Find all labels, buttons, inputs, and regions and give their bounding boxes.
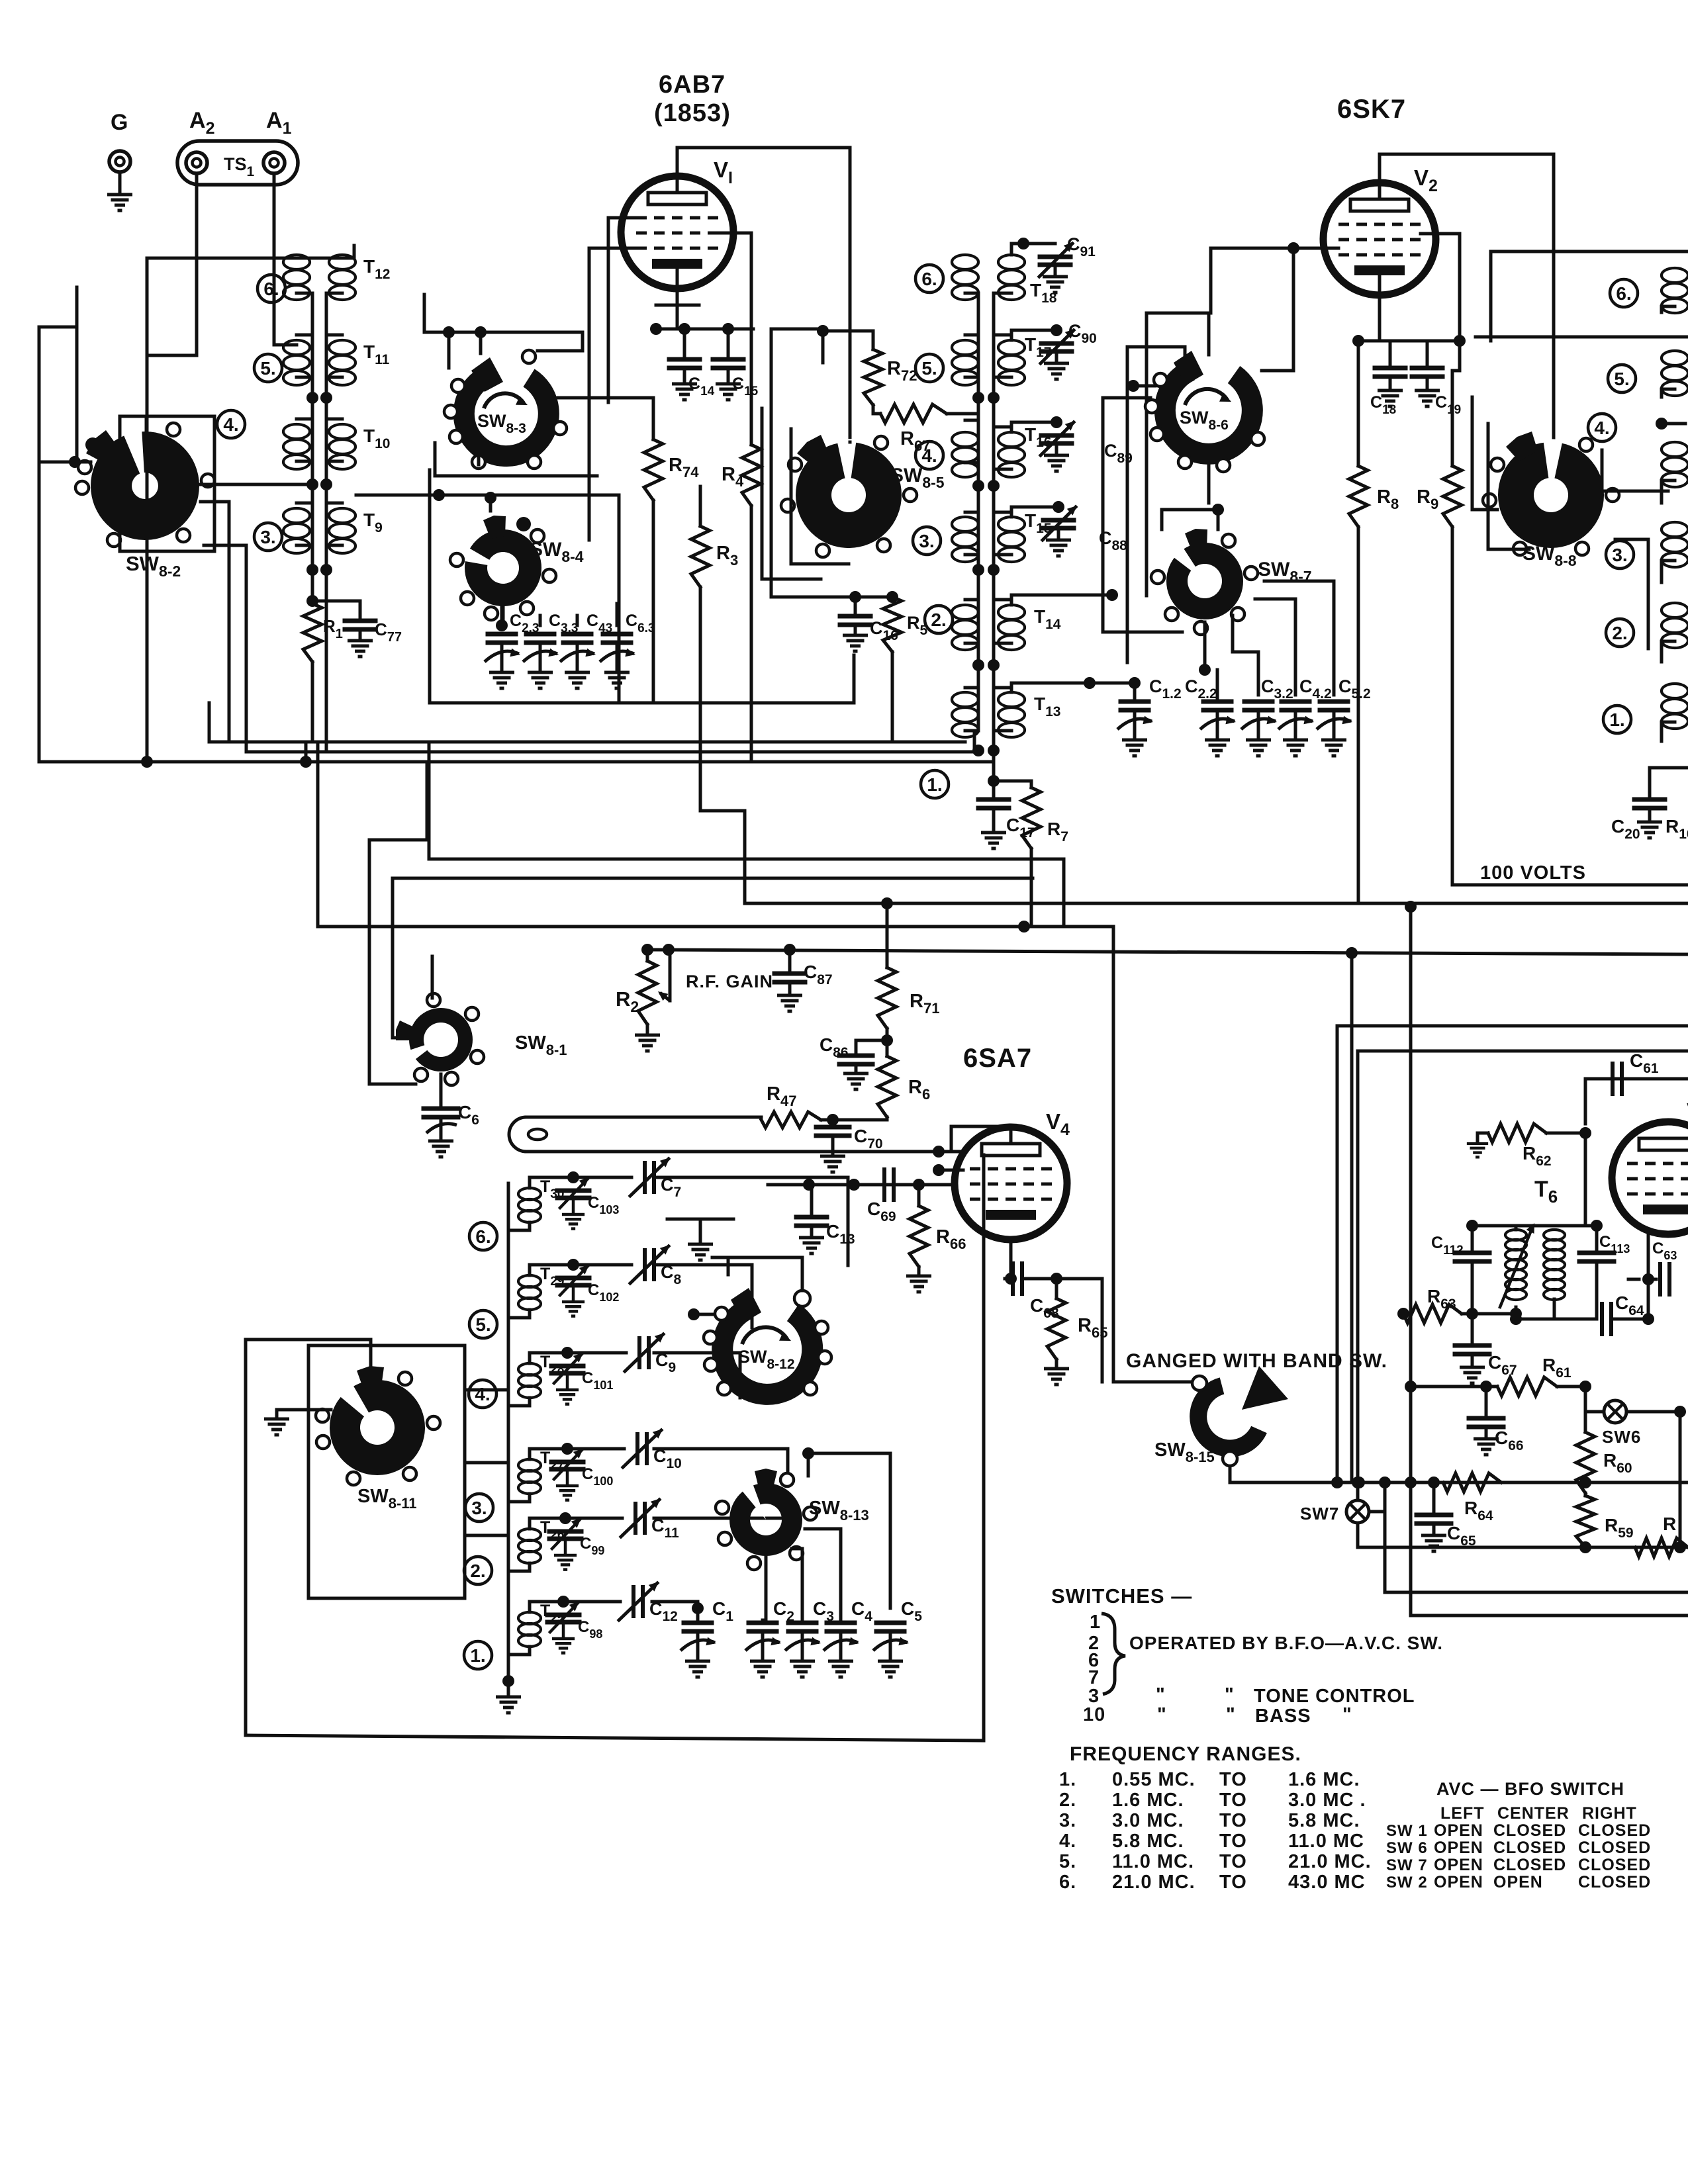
svg-text:5.8 MC.: 5.8 MC. (1288, 1810, 1360, 1831)
svg-text:4.: 4. (1594, 418, 1609, 438)
svg-text:G: G (111, 110, 128, 135)
resistor R63 (1403, 1304, 1462, 1323)
ground under C20 (1637, 822, 1662, 838)
svg-text:TONE CONTROL: TONE CONTROL (1254, 1686, 1415, 1707)
svg-text:6.: 6. (1616, 283, 1631, 304)
wire row 28 right (654, 1353, 740, 1398)
trimmer C101 (530, 1353, 567, 1363)
wire R74 down (652, 500, 655, 703)
wires SW8-6 (1133, 385, 1155, 388)
resistor R3 (691, 526, 710, 587)
svg-text:GANGED WITH BAND SW.: GANGED WITH BAND SW. (1126, 1350, 1387, 1372)
svg-text:0.55 MC.: 0.55 MC. (1112, 1769, 1196, 1790)
transformer T17 (998, 340, 1025, 355)
capacitor C14 (683, 329, 686, 357)
T6 primary winding (1505, 1230, 1526, 1240)
ground under C16 (843, 635, 868, 651)
oscillator box bottom (246, 1735, 984, 1741)
rotary switch SW8-3 (464, 375, 549, 456)
wire row 30 right (654, 1177, 848, 1265)
transformer T29 (518, 1275, 541, 1287)
resistor R71 (886, 903, 889, 968)
wire T6 top node (1472, 1224, 1597, 1228)
bottom right buses (1358, 1523, 1688, 1547)
ground under C15 (716, 384, 741, 400)
svg-text:CLOSED: CLOSED (1578, 1873, 1651, 1891)
wire V2 plate right (1421, 234, 1460, 341)
transformer T14 (998, 605, 1025, 619)
ground at R62 (1467, 1144, 1488, 1157)
trimmer C102 (530, 1265, 573, 1275)
transformer T16 (998, 432, 1025, 447)
wire SW8-3 bottom box (435, 443, 597, 476)
svg-text:RIGHT: RIGHT (1582, 1804, 1637, 1823)
wire T13 top to C1.2 (1011, 683, 1135, 692)
circled 6. (469, 1222, 497, 1250)
trimmer C88 (1011, 507, 1058, 517)
svg-text:SW 7: SW 7 (1386, 1856, 1428, 1874)
svg-text:1.: 1. (470, 1645, 485, 1666)
wire V1 topcap to SW8-5 (849, 441, 852, 444)
capacitor C6 (440, 1074, 443, 1107)
wire V4 top cap loop (951, 1126, 1011, 1152)
padder C2 (749, 1621, 776, 1625)
trimmer C6.3 (603, 632, 631, 637)
ground under R2 (646, 1024, 649, 1034)
wire bus 1365 (745, 902, 1688, 905)
capacitor C112 (1471, 1226, 1474, 1251)
wires SW8-13 to caps (808, 1453, 890, 1608)
wire T28 bottom (508, 1398, 530, 1406)
pointer SW8-12 (731, 1288, 761, 1323)
svg-text:SWITCHES —: SWITCHES — (1051, 1584, 1192, 1608)
oscillator common line (507, 1183, 510, 1681)
ground under C67 (1460, 1367, 1485, 1383)
svg-text:1.6 MC.: 1.6 MC. (1288, 1769, 1360, 1790)
circled 3. (465, 1494, 493, 1522)
wire bus 1588 (1358, 1050, 1688, 1053)
wire row 29 right (654, 1265, 752, 1328)
svg-text:OPEN: OPEN (1434, 1839, 1483, 1857)
T6 secondary winding (1544, 1230, 1565, 1240)
svg-text:CLOSED: CLOSED (1493, 1856, 1566, 1874)
wire SW8-1 feed (369, 762, 427, 996)
circled 2. (464, 1557, 492, 1584)
rotary switch SW8-5 (796, 442, 902, 548)
svg-text:CLOSED: CLOSED (1578, 1839, 1651, 1857)
wire V1 plate right (718, 233, 751, 445)
capacitor C68 (1005, 1277, 1011, 1281)
svg-text:BASS: BASS (1255, 1706, 1311, 1727)
rotary switch SW8-12 (722, 1310, 812, 1394)
ground under C86 (843, 1073, 868, 1089)
svg-text:(1853): (1853) (654, 99, 731, 127)
svg-text:11.0 MC: 11.0 MC (1288, 1831, 1364, 1852)
svg-text:1.: 1. (1609, 709, 1624, 730)
ground under C66 (1474, 1439, 1499, 1455)
wire mid coil columns (965, 293, 978, 731)
resistor R74 (644, 439, 663, 500)
svg-text:TO: TO (1219, 1872, 1247, 1893)
transformer T15 (998, 517, 1025, 531)
padder C1.2 (1121, 700, 1149, 704)
svg-text:4.: 4. (475, 1384, 490, 1404)
ground mid (699, 1219, 702, 1243)
svg-text:5.: 5. (260, 358, 275, 379)
resistor R9 (1452, 341, 1460, 466)
svg-text:4.: 4. (921, 445, 937, 466)
ground bottom of oscillator (502, 1675, 514, 1687)
svg-text:100 VOLTS: 100 VOLTS (1480, 862, 1586, 884)
svg-text:2.: 2. (470, 1561, 485, 1581)
svg-text:3.: 3. (471, 1498, 487, 1518)
svg-text:6.: 6. (921, 269, 937, 289)
svg-text:2.: 2. (931, 610, 946, 630)
padder C4 (827, 1621, 855, 1625)
wire R3 column (699, 486, 702, 526)
rotary switch SW8-13 (729, 1483, 802, 1556)
wire coil column joins (297, 293, 312, 570)
rotary switch SW8-2 (91, 432, 199, 540)
svg-text:TO: TO (1219, 1810, 1247, 1831)
svg-text:CLOSED: CLOSED (1493, 1821, 1566, 1840)
resistor R59 (1584, 1493, 1587, 1496)
wire row 27 right (654, 1449, 788, 1484)
svg-text:TO: TO (1219, 1769, 1247, 1790)
wire trimmer box bottom run (430, 655, 854, 703)
wires SW8-12 (694, 1313, 712, 1316)
wire row 26 right (654, 1518, 798, 1530)
svg-text:3.: 3. (1612, 545, 1627, 565)
resistor R60 (1576, 1432, 1595, 1493)
capacitor C87 (788, 950, 792, 972)
svg-text:3.0 MC .: 3.0 MC . (1288, 1790, 1366, 1811)
padder C1 (692, 1602, 704, 1614)
svg-text:TO: TO (1219, 1831, 1247, 1852)
svg-text:6SK7: 6SK7 (1337, 95, 1406, 124)
svg-text:1.6 MC.: 1.6 MC. (1112, 1790, 1184, 1811)
coil ant-3 (283, 508, 310, 523)
resistor R5 (883, 597, 902, 652)
wire box around SW8-5 (791, 429, 849, 564)
transformer T13 (998, 692, 1025, 707)
capacitor C67 (1471, 1314, 1474, 1343)
svg-text:": " (1156, 1684, 1166, 1706)
wire V1 grid left (608, 218, 636, 402)
capacitor C16 (855, 596, 892, 599)
wire into SW8-2 left (39, 461, 91, 464)
wire verticals right middle (1409, 907, 1413, 1482)
ground under C6 (428, 1141, 453, 1157)
svg-text:OPEN: OPEN (1493, 1873, 1543, 1891)
wires into SW8-3 (424, 331, 583, 334)
coil mid-5 (952, 340, 978, 355)
rotary switch SW8-4 (465, 529, 541, 606)
capacitor C113 (1595, 1226, 1599, 1251)
wire bus 1550 (1337, 1024, 1688, 1028)
wire R1 down (311, 662, 314, 739)
svg-text:3.0 MC.: 3.0 MC. (1112, 1810, 1184, 1831)
ground under G (107, 195, 132, 210)
svg-text:R: R (1663, 1514, 1676, 1534)
series capacitor C8 (573, 1263, 632, 1267)
tube V5 right edge (1612, 1122, 1688, 1234)
series capacitor C10 (567, 1447, 624, 1451)
svg-text:FREQUENCY RANGES.: FREQUENCY RANGES. (1070, 1743, 1301, 1765)
capacitor C19 (1426, 341, 1429, 366)
resistor R1 (303, 604, 322, 662)
svg-text:": " (1342, 1704, 1352, 1725)
capacitor C66 (1485, 1387, 1488, 1416)
capacitor C13 (810, 1185, 814, 1215)
ground under C77 (348, 641, 373, 657)
resistor R65 (1055, 1279, 1058, 1298)
wire T26 bottom (508, 1563, 530, 1571)
tube V4 6SA7 (955, 1127, 1067, 1240)
svg-text:6AB7: 6AB7 (659, 71, 726, 99)
svg-text:CENTER: CENTER (1497, 1804, 1570, 1823)
rotary switch SW8-6 (1165, 371, 1252, 454)
svg-text:2.: 2. (1059, 1790, 1076, 1811)
wire right coil jogs (1662, 306, 1675, 312)
padder C3.2 (1244, 700, 1272, 704)
capacitor C69 (882, 1169, 886, 1200)
box lines to coils (465, 1388, 508, 1392)
wire V4 cathode down (1009, 1240, 1013, 1279)
svg-text:5.: 5. (475, 1314, 491, 1335)
transformer T12 (329, 255, 355, 269)
wire far-left vertical (75, 287, 79, 462)
ground under C87 (777, 995, 802, 1011)
resistor R8 (1357, 341, 1360, 466)
wire T25 bottom (508, 1647, 530, 1655)
transformer T11 (329, 340, 355, 355)
ground under C14 (672, 384, 697, 400)
wire V1 top cap (677, 148, 850, 442)
coil ant-4 (283, 424, 310, 439)
pointer SW8-6 (1174, 351, 1203, 385)
svg-text:4.: 4. (223, 414, 238, 435)
svg-text:SW 2: SW 2 (1386, 1874, 1428, 1891)
svg-text:": " (1225, 1684, 1235, 1706)
wire A1 lead (274, 173, 297, 345)
potentiometer R2 R.F. GAIN (646, 950, 649, 961)
svg-text:6.: 6. (263, 279, 279, 299)
coil mid-2 (952, 605, 978, 619)
wire into V4 row (768, 1183, 956, 1187)
wire center column down to C17 (992, 751, 996, 797)
svg-text:3.: 3. (919, 531, 934, 551)
svg-text:": " (1157, 1704, 1167, 1725)
svg-text:CLOSED: CLOSED (1493, 1839, 1566, 1857)
trimmer C103 (530, 1177, 573, 1188)
trimmer C100 (530, 1449, 567, 1459)
wire SW8-3 right to R74 (558, 398, 653, 439)
trimmer C89 (1011, 422, 1056, 432)
svg-text:SW 1: SW 1 (1386, 1822, 1428, 1840)
ground under R66 (917, 1267, 921, 1275)
wire bus AVC upper (209, 741, 965, 744)
trimmer C2.3 (488, 632, 516, 637)
rotary switch SW8-1 (409, 1008, 473, 1071)
wire R47 to R6 (821, 1118, 887, 1122)
padder C5 (876, 1621, 904, 1625)
wire box edges right of T block (1126, 347, 1129, 662)
svg-text:21.0 MC.: 21.0 MC. (1112, 1872, 1196, 1893)
coil mid-6 (952, 255, 978, 269)
circled 4. (469, 1380, 496, 1408)
arrow of SW8-15 (1242, 1366, 1288, 1410)
wire SW8-2 box (120, 416, 214, 551)
trimmer C4.3 (563, 632, 591, 637)
capacitor C65 (1432, 1482, 1436, 1513)
wire V2 top cap (1380, 154, 1554, 463)
ground under R65 (1055, 1359, 1058, 1367)
wire V2 grid left (1211, 248, 1338, 313)
wire SW8-2 top contact (145, 416, 148, 432)
ground under C17 (981, 833, 1006, 848)
resistor R72 (864, 349, 882, 405)
coil ant-6 (283, 255, 310, 269)
svg-text:4.: 4. (1059, 1831, 1076, 1852)
svg-text:6.: 6. (475, 1226, 491, 1247)
ground under C13 (799, 1238, 824, 1253)
resistor R47 (761, 1112, 821, 1128)
transformer T9 (329, 508, 355, 523)
right antenna coils (1662, 268, 1688, 283)
resistor R7 (994, 781, 1031, 788)
ground left of SW8-11 (275, 1410, 279, 1418)
padder C3 (788, 1621, 816, 1625)
box around SW8-4 trimmers (430, 495, 619, 703)
padder C5.2 (1320, 700, 1348, 704)
wire R4 down (750, 506, 753, 762)
node R1 C77 (311, 570, 314, 604)
wires below SW8-7 to padders (1162, 510, 1218, 529)
padder C2.2 (1203, 700, 1231, 704)
trimmer C90 (1011, 330, 1056, 340)
resistor R6 (878, 1056, 896, 1117)
svg-text:CLOSED: CLOSED (1578, 1821, 1651, 1840)
wire lower buses (1385, 1482, 1688, 1592)
resistor R61 (1497, 1377, 1557, 1396)
wire T27 bottom (508, 1494, 530, 1502)
pointer of SW8-3 (471, 357, 503, 392)
capacitor C70 (831, 1120, 835, 1125)
rotary switch SW8-11 (330, 1380, 425, 1475)
capacitor C20 (1648, 768, 1652, 797)
capacitor C15 (727, 329, 730, 357)
coil mid-3 (952, 517, 978, 531)
transformer T10 (329, 424, 355, 439)
svg-text:21.0 MC.: 21.0 MC. (1288, 1851, 1372, 1872)
series capacitor C9 (567, 1351, 626, 1355)
svg-text:OPEN: OPEN (1434, 1821, 1483, 1840)
svg-text:1.: 1. (927, 774, 942, 795)
lamp SW7 (1346, 1500, 1369, 1523)
transformer T27 (518, 1459, 541, 1471)
capacitor C17 (978, 797, 1009, 802)
svg-text:OPEN: OPEN (1434, 1856, 1483, 1874)
wires SW8-15 (1230, 1466, 1602, 1482)
series capacitor C11 (565, 1517, 622, 1520)
ground under C19 (1415, 390, 1440, 406)
wire SW8-8 feeds (1602, 450, 1668, 491)
capacitor C18 (1389, 341, 1392, 366)
terminal G (109, 151, 130, 172)
svg-text:TO: TO (1219, 1790, 1247, 1811)
resistor R64 (1443, 1473, 1501, 1492)
rotary switch SW8-7 (1166, 543, 1243, 619)
padder C4.2 (1282, 700, 1309, 704)
resistor R66 (917, 1185, 921, 1206)
transformer T25 (518, 1612, 541, 1624)
series capacitor C7 (573, 1176, 632, 1179)
svg-text:SW7: SW7 (1300, 1504, 1339, 1524)
wire T29 bottom (508, 1310, 530, 1318)
svg-text:": " (1226, 1704, 1236, 1725)
wires around SW8-11 (308, 1345, 465, 1598)
svg-text:AVC — BFO SWITCH: AVC — BFO SWITCH (1436, 1779, 1624, 1799)
wire bus 1327 (393, 877, 1033, 880)
wire row 25 right (652, 1602, 698, 1620)
capacitor C86 (886, 1028, 889, 1056)
wire bus 1298 (429, 859, 1064, 927)
capacitor C61 (1585, 1077, 1688, 1081)
svg-text:TO: TO (1219, 1851, 1247, 1872)
rotary switch SW8-15 (1198, 1386, 1259, 1448)
transformer T26 (518, 1529, 541, 1541)
ground under C18 (1378, 390, 1403, 406)
svg-text:OPEN: OPEN (1434, 1873, 1483, 1891)
transformer T18 (998, 255, 1025, 269)
circled 1. (464, 1641, 492, 1669)
lamp SW6 (1604, 1400, 1626, 1423)
trimmer C99 (530, 1518, 565, 1529)
trimmer C98 (530, 1602, 563, 1612)
wire SW8-4 bottom contact (502, 606, 505, 625)
circled 5. (469, 1310, 497, 1338)
svg-text:3.: 3. (260, 527, 275, 547)
resistor R at right edge (1635, 1538, 1688, 1557)
wire V5 cathode (1647, 1231, 1650, 1279)
svg-text:6.: 6. (1059, 1872, 1076, 1893)
svg-text:LEFT: LEFT (1440, 1804, 1485, 1823)
svg-text:5.: 5. (921, 358, 937, 379)
svg-text:11.0 MC.: 11.0 MC. (1112, 1851, 1194, 1872)
svg-text:1.: 1. (1059, 1769, 1076, 1790)
svg-text:43.0 MC: 43.0 MC (1288, 1872, 1366, 1893)
wire SW8-2 right contact (199, 483, 312, 486)
brace (1102, 1614, 1125, 1694)
series capacitor C12 (563, 1600, 620, 1604)
ground under C65 (1421, 1535, 1446, 1551)
terminal strip TS1 (177, 141, 298, 185)
wire V1 cathode (676, 269, 679, 329)
capacitor C63 (1648, 1278, 1656, 1281)
wires into SW8-1 (369, 996, 416, 1084)
svg-text:10: 10 (1083, 1704, 1105, 1725)
trimmer C91 (1011, 244, 1055, 255)
wire T14 top (1011, 595, 1112, 605)
svg-text:5.: 5. (1059, 1851, 1076, 1872)
wire bus 1400 (318, 927, 1198, 1382)
svg-text:1: 1 (1090, 1612, 1101, 1633)
coil ant-5 (283, 340, 310, 355)
transformer T30 (518, 1188, 541, 1200)
ground under C70 (820, 1156, 845, 1172)
wire feeds above SW8-4 (428, 470, 432, 495)
